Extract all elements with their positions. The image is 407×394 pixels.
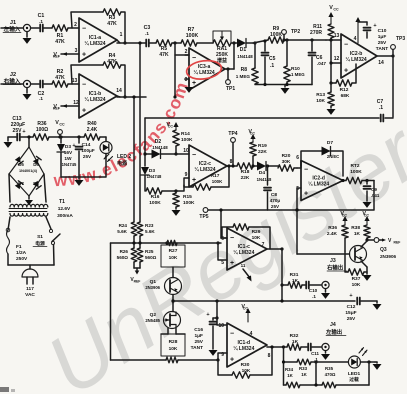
resistor R23 5.6K — [137, 222, 155, 248]
svg-text:V: V — [388, 238, 392, 244]
svg-text:9: 9 — [185, 172, 188, 178]
resistor R3 — [103, 9, 121, 27]
svg-text:1K: 1K — [292, 339, 299, 345]
svg-text:R38: R38 — [351, 225, 360, 231]
svg-text:J2: J2 — [10, 72, 16, 78]
svg-text:左输入: 左输入 — [4, 25, 21, 33]
wire R7 right — [197, 42, 213, 44]
svg-text:D8: D8 — [33, 181, 39, 186]
svg-text:25V: 25V — [194, 339, 203, 345]
wire C1 to R1 — [43, 27, 52, 29]
svg-text:8: 8 — [268, 353, 271, 359]
pin12 network R13 — [316, 81, 335, 114]
pin11 arrow — [241, 263, 252, 282]
svg-text:R24: R24 — [119, 223, 128, 228]
svg-text:+: + — [22, 129, 25, 135]
op-amp IC1-a — [79, 18, 117, 62]
Q3 base wire — [295, 208, 349, 254]
svg-text:TP4: TP4 — [228, 131, 237, 137]
svg-text:560Ω: 560Ω — [117, 255, 129, 260]
svg-text:1μF: 1μF — [378, 34, 387, 40]
svg-text:S1: S1 — [37, 234, 43, 240]
resistor R10 1MEG — [284, 38, 305, 84]
fuse F1 — [6, 217, 28, 265]
input jack J1 — [1, 20, 31, 33]
svg-text:25V: 25V — [271, 204, 280, 209]
resistor R36 2.4K — [327, 225, 348, 251]
wire R2 to pin13 — [68, 78, 79, 84]
capacitor C7 — [145, 99, 393, 122]
svg-text:−: − — [230, 235, 234, 242]
svg-text:D5: D5 — [18, 162, 24, 167]
power gnd rail — [61, 177, 84, 186]
op-amp IC1-b — [79, 74, 117, 118]
resistor R7 — [181, 27, 198, 46]
wire IC3-b out — [341, 179, 346, 182]
summing node wire — [172, 41, 189, 98]
mid node wire to R27 — [111, 241, 222, 244]
ground at J2 — [23, 88, 32, 100]
wire IC1-b output — [117, 96, 146, 97]
capacitor C5 — [262, 39, 276, 84]
transistor Q2 jfet — [145, 303, 180, 329]
resistor R5 — [156, 40, 172, 58]
svg-text:C12: C12 — [347, 304, 356, 310]
capacitor C12 — [345, 293, 381, 322]
svg-text:100K: 100K — [181, 137, 193, 143]
ground cluster — [263, 83, 289, 94]
resistor R11 270R — [310, 24, 334, 40]
Vcc for R11 — [328, 5, 339, 24]
svg-text:R30: R30 — [241, 362, 250, 368]
svg-text:1N4148: 1N4148 — [237, 54, 253, 59]
feedback R30 — [218, 345, 274, 378]
svg-text:1K: 1K — [354, 231, 361, 237]
svg-text:47K: 47K — [107, 59, 117, 65]
svg-text:15μF: 15μF — [345, 310, 356, 316]
svg-text:D1: D1 — [240, 47, 247, 53]
svg-text:12: 12 — [73, 100, 79, 106]
resistor R19 22K — [250, 142, 268, 168]
svg-text:1 MEG: 1 MEG — [291, 72, 305, 77]
svg-text:16V: 16V — [64, 150, 73, 156]
diode D1 — [237, 39, 253, 60]
transistor Q1 — [145, 267, 181, 303]
right edge drop — [392, 56, 394, 117]
svg-text:D7: D7 — [327, 140, 333, 146]
meter top wire — [282, 360, 297, 363]
svg-text:100μF: 100μF — [81, 148, 94, 153]
bridge bottom arrow — [25, 196, 33, 205]
resistor R1 — [52, 25, 68, 45]
bridge rectifier — [9, 147, 44, 196]
svg-text:D7: D7 — [18, 181, 24, 186]
svg-text:1N4001(4): 1N4001(4) — [19, 169, 38, 173]
Vref feed IC1-b pin12 — [53, 100, 79, 111]
red circle annotation — [185, 59, 222, 82]
svg-text:2: 2 — [74, 22, 77, 28]
svg-text:1: 1 — [120, 32, 123, 38]
svg-text:47K: 47K — [55, 75, 65, 81]
Vcc for R14 — [166, 122, 178, 130]
svg-text:R32: R32 — [290, 333, 299, 339]
pin8 output — [267, 345, 285, 359]
op-amp IC1-d — [218, 323, 267, 367]
resistor R8 1MEG — [236, 43, 258, 84]
ground LED right — [373, 362, 382, 370]
svg-text:10: 10 — [183, 148, 189, 154]
svg-text:左输出: 左输出 — [325, 328, 342, 336]
svg-text:250V: 250V — [16, 256, 28, 262]
svg-text:13: 13 — [334, 33, 340, 39]
svg-text:+: + — [192, 177, 196, 184]
wire loop IC3-b — [297, 181, 374, 211]
resistor R12 68K feedback — [331, 64, 356, 99]
capacitor C14 — [72, 135, 94, 177]
svg-text:22K: 22K — [241, 175, 250, 181]
ground IC3-a pin3 — [185, 55, 194, 93]
svg-text:R29: R29 — [252, 229, 261, 235]
svg-text:R34: R34 — [285, 367, 294, 372]
svg-text:R36: R36 — [328, 225, 337, 231]
svg-text:25V: 25V — [347, 316, 356, 322]
Vref feed IC1-a pin3 — [53, 48, 79, 59]
svg-text:10K: 10K — [316, 98, 325, 104]
Vref node — [130, 268, 140, 284]
switch S1 — [33, 217, 60, 265]
svg-text:14: 14 — [378, 60, 384, 66]
svg-text:8: 8 — [230, 159, 233, 165]
resistor R9 100K — [268, 26, 284, 43]
svg-text:1 MEG: 1 MEG — [236, 74, 251, 79]
ground left of C13 — [4, 137, 17, 148]
svg-text:1/2A: 1/2A — [16, 250, 27, 256]
test point TP5 — [199, 208, 208, 220]
svg-text:.1: .1 — [145, 31, 149, 36]
vertical mid meter — [314, 362, 317, 387]
svg-text:R23: R23 — [145, 223, 154, 228]
svg-text:10K: 10K — [169, 346, 178, 352]
svg-text:470Ω: 470Ω — [325, 372, 336, 377]
svg-text:R33: R33 — [299, 366, 308, 371]
svg-text:.047: .047 — [317, 61, 326, 66]
Q3 emitter resistor R37 — [345, 251, 372, 288]
diode D4 — [257, 162, 278, 183]
svg-text:−: − — [82, 25, 86, 32]
svg-text:REF: REF — [394, 241, 401, 245]
bottom rail of cluster — [255, 84, 312, 86]
Vcc testpoint — [55, 120, 65, 139]
svg-text:RT2: RT2 — [350, 163, 359, 169]
resistor R31 1K — [282, 272, 305, 288]
svg-text:R13: R13 — [316, 92, 325, 98]
svg-text:100K: 100K — [212, 179, 223, 184]
svg-text:100Ω: 100Ω — [36, 127, 48, 133]
resistor R40 2.4K — [84, 121, 106, 140]
svg-text:1K: 1K — [292, 278, 299, 284]
svg-text:.1: .1 — [312, 294, 316, 299]
overload LED1 — [348, 348, 367, 383]
svg-text:CC: CC — [59, 123, 65, 127]
resistor R25 560 — [137, 248, 156, 268]
svg-text:C16: C16 — [194, 327, 203, 333]
wire drop row2 node — [132, 95, 135, 222]
svg-text:2.4K: 2.4K — [87, 127, 98, 133]
svg-text:J4: J4 — [330, 322, 336, 328]
svg-text:R8: R8 — [241, 67, 248, 73]
svg-text:4: 4 — [354, 36, 357, 42]
svg-text:2N/EC: 2N/EC — [327, 154, 339, 159]
resistor R24 5.6K — [117, 222, 137, 248]
pin1 label — [120, 32, 123, 38]
svg-text:REF: REF — [53, 55, 61, 59]
svg-text:10K: 10K — [242, 368, 251, 374]
svg-text:F1: F1 — [16, 244, 22, 250]
wire pin6 from TP5 — [219, 208, 227, 238]
svg-text:12.6V: 12.6V — [58, 206, 71, 212]
svg-text:D6: D6 — [33, 162, 39, 167]
ground J3 — [321, 289, 330, 299]
wire J2 to C2 — [31, 83, 39, 85]
long rail wire — [171, 299, 355, 302]
svg-text:¼ LM324: ¼ LM324 — [233, 345, 254, 352]
svg-text:100K: 100K — [350, 169, 362, 175]
capacitor C9 — [363, 179, 380, 208]
capacitor C8 — [264, 164, 280, 210]
diode D1b vertical — [141, 152, 162, 191]
test point TP2 — [282, 29, 301, 42]
thermistor RT2 — [346, 163, 374, 184]
resistor R28 box — [161, 334, 185, 356]
svg-text:−: − — [192, 152, 196, 159]
svg-text:C10: C10 — [309, 288, 318, 293]
wire R11 to pin13 — [326, 33, 341, 42]
wire to pin10 — [176, 148, 189, 154]
feedback diode D9 — [301, 140, 343, 176]
svg-text:C5: C5 — [269, 56, 276, 62]
svg-text:R35: R35 — [325, 366, 334, 371]
svg-text:过载: 过载 — [349, 376, 359, 383]
op-amp IC2-b — [341, 34, 377, 78]
left drop to meter — [283, 347, 285, 385]
C16 node wire — [215, 301, 227, 325]
svg-text:R25: R25 — [145, 249, 154, 254]
svg-text:117: 117 — [26, 286, 34, 292]
svg-text:TP2: TP2 — [291, 29, 300, 35]
pin4 power — [354, 17, 361, 43]
svg-text:10: 10 — [218, 323, 224, 329]
svg-text:5.6K: 5.6K — [117, 229, 127, 234]
test point TP4 — [228, 131, 237, 168]
svg-text:10K: 10K — [169, 255, 178, 261]
left loop rail — [110, 243, 112, 360]
svg-text:47K: 47K — [107, 21, 117, 27]
resistor R18 22K — [237, 163, 258, 181]
svg-text:22K: 22K — [258, 149, 267, 155]
svg-text:14: 14 — [116, 88, 122, 94]
svg-text:增益: 增益 — [217, 57, 227, 64]
resistor R35 470 — [322, 366, 369, 388]
svg-text:10K: 10K — [252, 235, 261, 241]
svg-text:右输出: 右输出 — [327, 264, 343, 272]
power LED2 — [79, 137, 131, 177]
resistor R27 box — [161, 240, 185, 267]
svg-text:T1: T1 — [59, 199, 65, 205]
svg-text:1N4748: 1N4748 — [147, 174, 162, 179]
svg-text:R20: R20 — [282, 153, 291, 159]
resistor R15 100K — [172, 189, 196, 215]
wire drop row1 node — [138, 41, 141, 222]
svg-text:REF: REF — [53, 107, 61, 111]
Vcc label R36b — [340, 211, 347, 225]
capacitor C13 — [11, 116, 33, 141]
svg-text:1N4745: 1N4745 — [62, 162, 77, 167]
resistor R32 1K — [284, 333, 308, 350]
svg-text:TP3: TP3 — [396, 36, 405, 42]
svg-text:J1: J1 — [10, 20, 16, 26]
svg-text:R16: R16 — [151, 194, 160, 200]
svg-text:LED1: LED1 — [348, 371, 361, 377]
resistor R34 1K — [284, 367, 323, 388]
resistor R17 feedback — [184, 166, 229, 190]
resistor R16 100K — [146, 188, 176, 206]
resistor R14 100K — [173, 130, 193, 156]
svg-text:1N4148: 1N4148 — [152, 145, 168, 150]
svg-text:LED 2: LED 2 — [117, 154, 131, 160]
svg-text:560Ω: 560Ω — [145, 255, 157, 260]
svg-text:47K: 47K — [159, 52, 169, 58]
wire C3 to R5 — [149, 42, 156, 44]
op-amp IC3-b — [296, 155, 343, 201]
svg-text:47K: 47K — [55, 39, 65, 45]
transformer T1 — [9, 174, 73, 219]
svg-text:−: − — [344, 41, 348, 48]
svg-text:CC: CC — [168, 125, 174, 129]
svg-text:300mA: 300mA — [57, 213, 73, 219]
svg-text:2.4K: 2.4K — [327, 231, 338, 237]
svg-text:CC: CC — [342, 214, 348, 218]
svg-text:+: + — [192, 80, 196, 87]
svg-text:−: − — [230, 330, 234, 337]
svg-text:100K: 100K — [149, 200, 161, 206]
svg-text:CC: CC — [250, 132, 256, 136]
pin12 wire — [329, 40, 341, 83]
wire IC3-a out — [225, 41, 237, 69]
capacitor C2 — [38, 81, 45, 102]
Vref tap — [365, 238, 400, 245]
svg-text:电源: 电源 — [117, 160, 127, 167]
wire to pin9 — [176, 172, 189, 191]
svg-text:100K: 100K — [270, 32, 282, 38]
svg-text:+: + — [206, 312, 209, 318]
resistor R4 — [103, 53, 121, 68]
test point TP1 — [226, 67, 236, 92]
svg-text:.1: .1 — [39, 96, 43, 101]
resistor R39 1K — [351, 225, 370, 241]
svg-text:R18: R18 — [241, 169, 250, 175]
svg-text:+: + — [304, 191, 308, 198]
bridge top wire — [27, 135, 30, 147]
svg-text:+: + — [82, 52, 86, 59]
svg-text:TP5: TP5 — [199, 214, 208, 220]
svg-text:.1: .1 — [39, 19, 43, 24]
svg-text:270R: 270R — [310, 30, 322, 36]
svg-text:CC: CC — [243, 307, 249, 311]
zener D3 — [57, 135, 77, 177]
svg-text:−: − — [82, 81, 86, 88]
svg-text:TP1: TP1 — [226, 86, 235, 92]
svg-text:+: + — [230, 260, 234, 267]
pin14 and output — [377, 54, 395, 66]
pin4 Vcc — [241, 304, 252, 337]
svg-text:R31: R31 — [290, 272, 299, 278]
Vcc for R19 — [248, 129, 255, 142]
svg-text:100K: 100K — [183, 200, 195, 206]
svg-text:电源: 电源 — [35, 240, 45, 247]
svg-text:¼ LM324: ¼ LM324 — [233, 249, 254, 256]
svg-text:7: 7 — [262, 242, 265, 248]
wire J1 to C1 — [31, 27, 39, 29]
bottom long wire — [111, 357, 219, 363]
Q2 source legs — [161, 328, 185, 334]
resistor R20 30K — [278, 153, 301, 171]
svg-text:REF: REF — [134, 280, 141, 284]
plug 117VAC — [22, 265, 38, 298]
svg-text:2N3906: 2N3906 — [145, 285, 160, 290]
svg-text:C10: C10 — [378, 28, 387, 34]
svg-text:R19: R19 — [258, 143, 267, 149]
svg-text:470μ: 470μ — [270, 198, 281, 203]
svg-text:¼ LM324: ¼ LM324 — [308, 181, 329, 188]
feedback wire IC1-a — [71, 12, 127, 45]
svg-text:1K: 1K — [301, 372, 307, 377]
gain pot RA1 — [213, 31, 231, 64]
op-amp IC1-c — [221, 228, 267, 270]
op-amp IC2-c — [189, 145, 227, 187]
node after D1 — [253, 40, 268, 45]
diode D2 — [152, 139, 177, 159]
capacitor C3 — [144, 25, 151, 47]
svg-text:5.6K: 5.6K — [145, 229, 155, 234]
svg-text:25V: 25V — [83, 154, 92, 159]
pin9 wire — [216, 353, 227, 362]
svg-text:J3: J3 — [330, 258, 336, 264]
svg-text:CC: CC — [364, 214, 370, 218]
svg-text:1K: 1K — [287, 373, 293, 378]
svg-text:CC: CC — [333, 8, 339, 12]
svg-text:11: 11 — [241, 263, 246, 268]
AC wires — [8, 264, 54, 266]
svg-text:R26: R26 — [120, 249, 129, 254]
svg-text:100K: 100K — [186, 33, 199, 39]
pin14 label — [116, 88, 122, 94]
wire pin5 net — [216, 241, 227, 260]
svg-text:R37: R37 — [352, 276, 361, 282]
LED1 right wire — [360, 360, 375, 385]
svg-text:.041: .041 — [371, 193, 380, 198]
svg-text:3: 3 — [75, 48, 78, 54]
svg-text:¼ LM324: ¼ LM324 — [84, 40, 105, 47]
svg-text:R27: R27 — [169, 248, 178, 254]
svg-text:R12: R12 — [340, 87, 349, 93]
svg-text:TANT: TANT — [376, 46, 389, 52]
svg-text:TANT: TANT — [191, 345, 204, 351]
gray UnRegistered watermark — [31, 53, 407, 394]
svg-text:−: − — [304, 167, 308, 174]
op-amp IC3-a — [185, 48, 225, 90]
output jack J3 — [322, 258, 347, 289]
svg-text:1N4148: 1N4148 — [257, 177, 272, 182]
